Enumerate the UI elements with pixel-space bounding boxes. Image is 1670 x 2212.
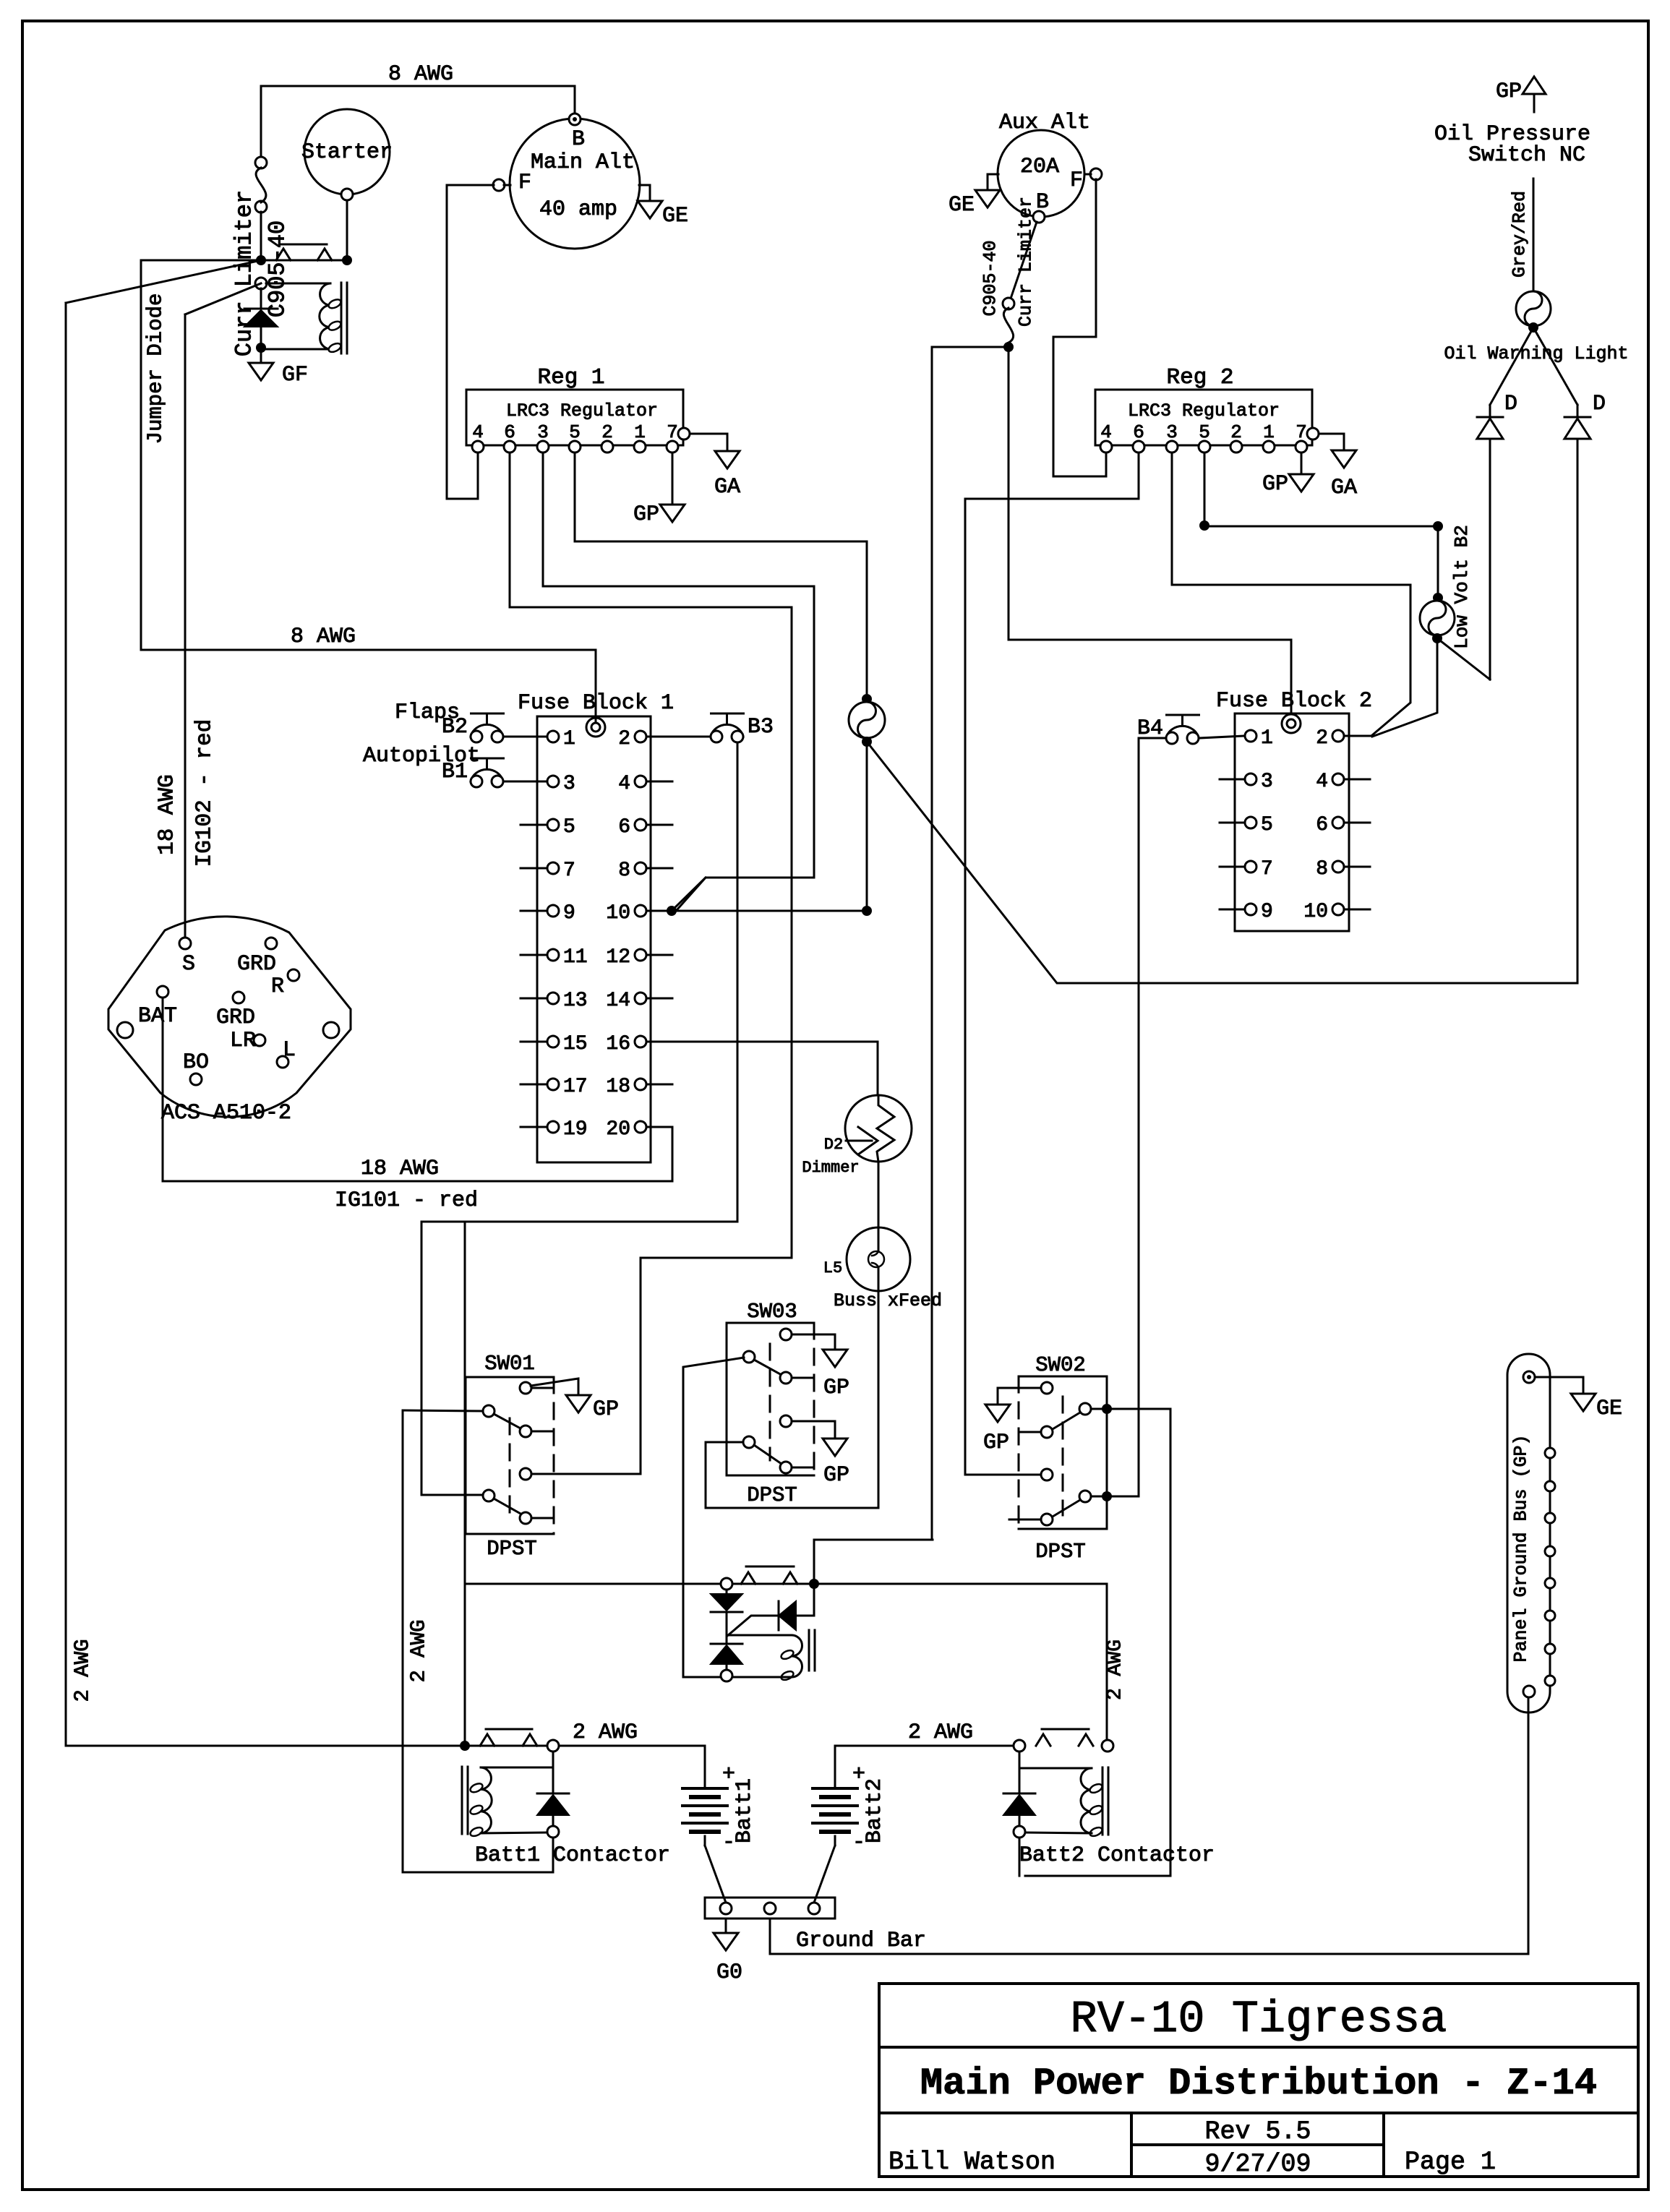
svg-text:D: D (1593, 392, 1606, 416)
svg-text:DPST: DPST (487, 1537, 537, 1561)
wire low volt lamp to left diode (1437, 638, 1490, 680)
SW01 contact F (520, 1512, 531, 1524)
svg-text:RV-10 Tigressa: RV-10 Tigressa (1071, 1994, 1447, 2045)
batt2 contactor terminal left (1014, 1740, 1025, 1752)
svg-text:5: 5 (1261, 814, 1273, 836)
svg-text:GP: GP (1262, 472, 1288, 497)
svg-text:18 AWG: 18 AWG (361, 1157, 439, 1181)
wire batt1 bus to battery+ (704, 1746, 706, 1788)
svg-text:Ground Bar: Ground Bar (796, 1929, 926, 1953)
title block outer box (879, 1984, 1638, 2177)
svg-text:GE: GE (1596, 1397, 1622, 1421)
svg-text:4: 4 (1316, 771, 1328, 793)
batt2 contactor coil (1081, 1768, 1092, 1833)
svg-text:2 AWG: 2 AWG (573, 1720, 638, 1745)
batt2 contactor coil top lead (1019, 1767, 1092, 1770)
SW03 contact A (780, 1329, 792, 1340)
SW02 pole1 arm (1053, 1412, 1080, 1429)
svg-text:Grey/Red: Grey/Red (1510, 191, 1530, 278)
svg-text:LR: LR (230, 1029, 256, 1053)
svg-text:13: 13 (563, 990, 588, 1012)
svg-text:BO: BO (183, 1050, 209, 1075)
wire Reg2 pin7 to GA (1319, 434, 1344, 450)
wire batt1 minus to ground bar (705, 1846, 726, 1903)
node crossfeed right (809, 1579, 819, 1589)
keyswitch pin GRD mid (233, 992, 244, 1003)
wire contactor-left to 8AWG feeder (141, 260, 261, 650)
svg-text:DPST: DPST (1035, 1540, 1086, 1564)
SW03 pole 1 arm (754, 1360, 782, 1375)
svg-text:B: B (572, 127, 585, 152)
crossfeed core bars (808, 1630, 810, 1671)
svg-text:GE: GE (949, 193, 975, 218)
keyswitch pin L (277, 1056, 288, 1068)
svg-text:2 AWG: 2 AWG (407, 1619, 431, 1682)
FB2 left stubs (1220, 779, 1245, 781)
wire oil pressure switch (Grey/Red) (1533, 179, 1535, 291)
FB2 pin circles and numbers (1245, 730, 1256, 742)
crossfeed contactor overbar (746, 1566, 794, 1568)
ground GP (SW01) (566, 1395, 591, 1412)
wire F to Reg1 pin 4 (447, 185, 494, 499)
svg-text:LRC3 Regulator: LRC3 Regulator (1128, 400, 1280, 421)
svg-text:GP: GP (823, 1376, 849, 1400)
svg-text:7: 7 (563, 859, 575, 882)
svg-text:ACS A510-2: ACS A510-2 (161, 1101, 291, 1126)
svg-text:1: 1 (563, 728, 575, 750)
batt2 contactor overbar (1042, 1728, 1089, 1731)
svg-text:D2: D2 (824, 1136, 843, 1154)
aux alt F terminal (1090, 168, 1102, 180)
Reg 1 pin 7 side terminal (678, 428, 690, 440)
batt2 contactor diode (1019, 1752, 1021, 1793)
svg-text:15: 15 (563, 1033, 588, 1055)
FB2 right stubs (1344, 735, 1370, 737)
lamp oil warning light (1516, 291, 1551, 326)
node aux B junction (1003, 342, 1014, 352)
Reg 1 pin circles (472, 441, 484, 453)
crossfeed contactor terminal left (721, 1578, 732, 1590)
keyswitch mounting holes (117, 1022, 133, 1038)
wire terminal to diode (260, 288, 262, 309)
svg-text:Flaps: Flaps (395, 700, 460, 725)
crossfeed coil bottom terminal (721, 1670, 732, 1681)
wire into SW01 pole1 (403, 1410, 483, 1411)
svg-text:GP: GP (823, 1463, 849, 1488)
wire FB1 pin10 (646, 910, 867, 912)
batt1 bus wire 2 AWG (66, 1745, 705, 1747)
wire aux B junction to left vertical (932, 347, 1009, 1540)
keyswitch pin R (288, 969, 299, 981)
wire pin10 to Reg1 pin3 diagonal (672, 878, 706, 911)
SW01 pole 1 pivot (483, 1405, 494, 1417)
wire B4 to FB2 pin1 (1199, 736, 1245, 738)
lamp Low Volt B2 (1433, 593, 1443, 603)
svg-text:Buss xFeed: Buss xFeed (834, 1290, 942, 1311)
svg-text:9/27/09: 9/27/09 (1204, 2150, 1311, 2179)
SW03 pole 2 pivot (743, 1436, 755, 1448)
svg-text:L5: L5 (823, 1259, 842, 1277)
svg-text:6: 6 (1316, 814, 1328, 836)
svg-text:8 AWG: 8 AWG (388, 62, 453, 87)
svg-text:D: D (1504, 392, 1517, 416)
wire IG102 vertical to keyswitch S (184, 314, 187, 938)
svg-text:2: 2 (618, 728, 630, 750)
svg-text:GP: GP (633, 502, 659, 527)
wire SW02 F to B4 (1107, 738, 1166, 1496)
node SW02 B (1102, 1404, 1112, 1414)
main alternator G1 (510, 119, 640, 249)
wire jumper terminal to keyswitch S diagonal (185, 283, 261, 314)
starter contactor carets (276, 249, 291, 260)
wire lamp to FB1 pin10 (866, 742, 868, 911)
batt1 contactor carets (480, 1734, 494, 1746)
starter M1 (304, 109, 390, 194)
keyswitch ACS A510-2 outline (108, 917, 351, 1117)
wire SW02 B to Batt2 coil (1025, 1409, 1170, 1876)
SW01 pole 2 arm (494, 1499, 521, 1514)
node jumper diode bottom (256, 343, 266, 353)
svg-text:IG101 - red: IG101 - red (335, 1188, 478, 1213)
wire contactor-left to left bus (2 AWG) diagonal (66, 260, 261, 303)
FB2 feed entry (1282, 714, 1301, 733)
Reg 1 box (466, 390, 683, 445)
lamp L5 Buss xFeed (847, 1227, 910, 1291)
SW02 contact D (1041, 1469, 1053, 1480)
batt1 contactor diode (552, 1752, 554, 1793)
SW01 arm A to GP (531, 1379, 578, 1395)
crossfeed contactor carets (741, 1572, 755, 1584)
svg-text:3: 3 (563, 773, 575, 795)
Reg 2 box (1095, 390, 1312, 445)
svg-text:GRD: GRD (237, 952, 276, 977)
svg-text:GP: GP (593, 1397, 619, 1422)
panel ground bus bottom pin (1523, 1686, 1535, 1697)
node oil lamp bottom (1528, 322, 1538, 333)
SW03 pole 2 arm (754, 1445, 782, 1464)
svg-text:GA: GA (714, 475, 740, 500)
jumper diode D (bar and triangle) (244, 308, 278, 310)
svg-text:20A: 20A (1020, 155, 1059, 179)
svg-text:1: 1 (1261, 727, 1273, 750)
svg-text:Curr Limiter: Curr Limiter (231, 190, 258, 356)
SW02 pole 2 pivot (1041, 1514, 1053, 1525)
SW02 pole 1 contact B (1079, 1403, 1091, 1415)
svg-text:Jumper Diode: Jumper Diode (144, 293, 168, 445)
svg-text:Aux Alt: Aux Alt (999, 111, 1090, 135)
ground GE (panel bus) (1571, 1394, 1596, 1411)
ground GP (SW03 lower) (823, 1439, 847, 1456)
keyswitch pin S (179, 938, 191, 949)
crossfeed diode lower (up) (726, 1612, 728, 1644)
svg-text:S: S (182, 952, 195, 977)
svg-text:2 AWG: 2 AWG (908, 1720, 973, 1745)
SW01 contact C (520, 1468, 531, 1480)
crossfeed coil (727, 1634, 792, 1637)
svg-text:C905-40: C905-40 (265, 220, 291, 317)
Reg 2 pin circles (1100, 441, 1112, 453)
starter contactor overbar (281, 244, 327, 246)
SW01 pole 2 pivot (483, 1490, 494, 1501)
wire lamp to oil warning diodes (diagonal) (867, 439, 1577, 983)
ground bar (705, 1898, 835, 1919)
svg-text:GF: GF (282, 363, 308, 387)
aux alt B terminal (1033, 211, 1045, 223)
svg-text:16: 16 (606, 1033, 630, 1055)
svg-text:8 AWG: 8 AWG (291, 625, 356, 649)
ground GE (main alt) (638, 201, 662, 218)
svg-text:Main Alt: Main Alt (531, 150, 635, 175)
batt1 contactor coil top lead (481, 1767, 553, 1769)
battery Batt2 (813, 1787, 857, 1790)
dimmer D2 (845, 1095, 912, 1162)
svg-text:B3: B3 (748, 715, 774, 740)
svg-text:Starter: Starter (301, 140, 393, 165)
diode D (left) (1489, 405, 1491, 417)
SW03 contact F (780, 1462, 792, 1473)
ground GA (Reg 2) (1332, 450, 1356, 468)
svg-text:2 AWG: 2 AWG (71, 1639, 95, 1702)
wire aux F to Reg2 pin 4 (1053, 179, 1106, 476)
wire pin5 node to lamp node (1204, 526, 1438, 528)
panel ground bus pins (1545, 1448, 1555, 1458)
svg-text:Rev 5.5: Rev 5.5 (1204, 2117, 1311, 2146)
SW01 contact E (520, 1426, 531, 1437)
keyswitch pin LR (254, 1034, 265, 1046)
breaker B1 Autopilot (471, 758, 504, 760)
wire aux alt case to GE (988, 174, 998, 190)
FB1 pin circles and numbers (547, 731, 559, 742)
main alt B terminal (569, 113, 581, 125)
wire to diode D left (1490, 327, 1533, 405)
svg-text:IG102 - red: IG102 - red (192, 719, 218, 867)
svg-text:GRD: GRD (216, 1006, 255, 1030)
svg-text:12: 12 (606, 946, 630, 969)
batt2 bus wire 2 AWG (835, 1745, 1019, 1747)
wire FB1 pin2 to B3 (646, 736, 711, 738)
starter contactor core bars (341, 283, 343, 353)
svg-text:20: 20 (606, 1118, 630, 1141)
wire panel bus to GE (1535, 1377, 1583, 1394)
batt2 contactor terminal right (1102, 1740, 1113, 1752)
svg-text:G0: G0 (716, 1960, 742, 1985)
SW01 box (466, 1377, 554, 1534)
ground GA (Reg 1) (715, 451, 740, 468)
svg-text:Fuse Block 2: Fuse Block 2 (1216, 689, 1372, 713)
wire starter to contactor (346, 200, 348, 257)
ground GF (260, 353, 262, 363)
ground GP (Reg 1) (660, 505, 685, 522)
wire aux B junction down to FB2 (1009, 352, 1291, 720)
SW02 contact A (1041, 1382, 1053, 1394)
wire Reg1 pin6 to SW01 upper contact (510, 453, 792, 1474)
FB1 feed entry (586, 718, 605, 737)
wire to diode D right (1533, 327, 1577, 405)
svg-text:7: 7 (1261, 858, 1273, 880)
SW03 box (727, 1323, 814, 1475)
SW03 pole 1 pivot (743, 1351, 755, 1363)
batt2 coil bottom terminal (1014, 1826, 1025, 1838)
batt1 contactor overbar (486, 1728, 532, 1731)
wire ground bar to panel ground bus (770, 1697, 1528, 1954)
svg-text:LRC3 Regulator: LRC3 Regulator (506, 400, 658, 421)
svg-text:L: L (283, 1038, 296, 1063)
svg-text:F: F (518, 171, 531, 195)
breaker B2 Flaps (471, 713, 504, 715)
svg-text:Oil Warning Light: Oil Warning Light (1444, 343, 1628, 364)
svg-text:19: 19 (563, 1118, 588, 1141)
SW02 pole 2 contact F (1079, 1491, 1091, 1502)
svg-text:40 amp: 40 amp (539, 197, 617, 222)
svg-text:18: 18 (606, 1076, 630, 1098)
crossfeed diode upper (down) (726, 1590, 728, 1594)
aux curr limiter F2 C905-40 (1011, 222, 1037, 299)
wire B1 to FB1 pin3 (503, 781, 547, 783)
svg-text:Batt2 Contactor: Batt2 Contactor (1019, 1843, 1215, 1868)
wire crossfeed bus left vertical (464, 1223, 466, 1746)
ground GP (SW02) (985, 1405, 1010, 1422)
svg-text:SW01: SW01 (484, 1352, 535, 1376)
starter contactor coil leads (266, 283, 330, 285)
current limiter F1 C905-40 (255, 157, 267, 168)
SW02 pole2 arm (1053, 1500, 1080, 1517)
svg-text:Curr Limiter: Curr Limiter (1016, 197, 1037, 327)
Reg 2 pin 7 side terminal (1307, 428, 1319, 440)
svg-text:Batt1 Contactor: Batt1 Contactor (475, 1843, 670, 1868)
svg-text:Page 1: Page 1 (1405, 2148, 1496, 2177)
wire diode to node (260, 327, 262, 344)
SW01 contact A (520, 1382, 531, 1394)
node batt1 bus (460, 1741, 470, 1751)
svg-text:11: 11 (563, 946, 588, 969)
wire dimmer to L5 (878, 1162, 880, 1229)
svg-text:BAT: BAT (138, 1004, 177, 1029)
wire Reg2 pin3 to FB2 pin2 (1172, 453, 1410, 735)
battery Batt1 (682, 1787, 727, 1790)
wire diode D left to lamp (1489, 439, 1491, 680)
batt1 contactor coil (481, 1767, 492, 1833)
wire crossfeed up to aux bus (814, 1540, 933, 1584)
wire batt1 coil to SW01 (403, 1410, 553, 1872)
ground GP (SW03 upper) (823, 1350, 847, 1367)
breaker B3 (711, 713, 744, 715)
breaker B4 (1167, 714, 1199, 716)
svg-text:GP: GP (983, 1431, 1009, 1455)
svg-text:8: 8 (1316, 858, 1328, 880)
node contactor right (342, 255, 352, 265)
svg-text:10: 10 (1303, 901, 1328, 923)
svg-text:GP: GP (1496, 80, 1522, 104)
wire B3 to SW01 lower pole (421, 742, 737, 1495)
aux alternator G2 (998, 130, 1084, 217)
jumper diode terminal (255, 278, 267, 289)
SW01 pole 1 arm (494, 1414, 521, 1428)
FB1 right pin stubs (646, 781, 672, 783)
node FB1 pin10 right (862, 906, 872, 916)
crossfeed steering diode (left) (797, 1589, 814, 1616)
wire FB1 pin16 to dimmer (646, 1042, 878, 1095)
svg-text:Switch NC: Switch NC (1468, 143, 1585, 168)
starter bottom terminal (341, 189, 353, 200)
svg-text:2 AWG: 2 AWG (1105, 1639, 1127, 1700)
batt1 contactor coil bottom lead (481, 1832, 547, 1833)
panel ground bus top pin (1523, 1371, 1535, 1383)
wire 8 AWG from starter contactor to Main Alt B (261, 86, 575, 168)
svg-text:Batt2: Batt2 (862, 1778, 887, 1843)
svg-text:B4: B4 (1137, 716, 1163, 741)
wire Reg1 pin7 to GP (672, 453, 674, 505)
wire 8 AWG bus to FB1 (141, 650, 596, 723)
svg-text:6: 6 (618, 816, 630, 839)
wire L5 to SW03 lower pole (706, 1291, 878, 1508)
svg-text:14: 14 (606, 990, 630, 1012)
batt1 contactor core bars (461, 1767, 463, 1834)
keyswitch pin BAT (157, 986, 168, 998)
wire Reg1 pin5 to lamp (575, 453, 867, 694)
wire Reg2 pin5 to low volt lamp (1204, 453, 1206, 526)
svg-text:9: 9 (563, 902, 575, 925)
svg-text:Reg 1: Reg 1 (537, 365, 604, 390)
svg-text:R: R (271, 974, 284, 999)
svg-text:GE: GE (662, 204, 688, 228)
FB2 box (1235, 713, 1349, 931)
svg-text:Dimmer: Dimmer (802, 1159, 859, 1177)
starter contactor S1 bar (261, 260, 347, 262)
keyswitch pin BO (190, 1073, 202, 1085)
SW02 contact C (1041, 1426, 1053, 1438)
lamp L1 (bus feed) (862, 694, 872, 704)
batt2 contactor coil bottom lead (1025, 1832, 1092, 1833)
svg-text:Autopilot: Autopilot (363, 744, 480, 768)
batt1 contactor terminal (547, 1740, 559, 1752)
wire SW03 pole1 to crossfeed coil (683, 1358, 744, 1677)
wire batt2 minus to ground bar (814, 1846, 835, 1903)
svg-text:Low Volt B2: Low Volt B2 (1451, 525, 1473, 649)
wire curr limiter to contactor (260, 212, 262, 255)
panel ground bus (GP) (1507, 1354, 1550, 1712)
FB1 left pin stubs (521, 824, 547, 826)
svg-text:C905-40: C905-40 (980, 240, 1001, 316)
ground G0 (725, 1919, 727, 1933)
svg-text:9: 9 (1261, 901, 1273, 923)
wire low volt lamp to FB2 pin2 (1372, 643, 1437, 737)
node FB1 pin10 left (667, 906, 677, 916)
svg-text:Bill Watson: Bill Watson (888, 2148, 1055, 2177)
wire Reg1 pin7 to GA (690, 434, 727, 451)
SW03 contact D (780, 1415, 792, 1427)
svg-text:5: 5 (563, 816, 575, 839)
FB1 box (537, 716, 651, 1162)
node contactor left (256, 255, 266, 265)
svg-text:10: 10 (606, 902, 630, 925)
wire 2 AWG left vertical (65, 303, 67, 1746)
svg-text:17: 17 (563, 1076, 588, 1098)
svg-text:SW02: SW02 (1035, 1353, 1086, 1377)
svg-text:4: 4 (618, 773, 630, 795)
title block row lines (879, 2046, 1638, 2049)
svg-text:SW03: SW03 (747, 1300, 797, 1324)
wire main alt case to GE (639, 185, 650, 201)
wire Reg2 pin7 to GP (1301, 453, 1303, 474)
crossfeed bus wire (466, 1583, 1107, 1585)
batt2 contactor carets (1036, 1734, 1050, 1746)
svg-text:Panel Ground Bus (GP): Panel Ground Bus (GP) (1511, 1434, 1532, 1662)
batt2 contactor core bars (1102, 1767, 1104, 1835)
main alt F terminal (493, 179, 505, 191)
node SW02 F (1102, 1491, 1112, 1501)
ground GP (Reg 2) (1289, 474, 1314, 492)
diode D (right) (1577, 405, 1579, 417)
